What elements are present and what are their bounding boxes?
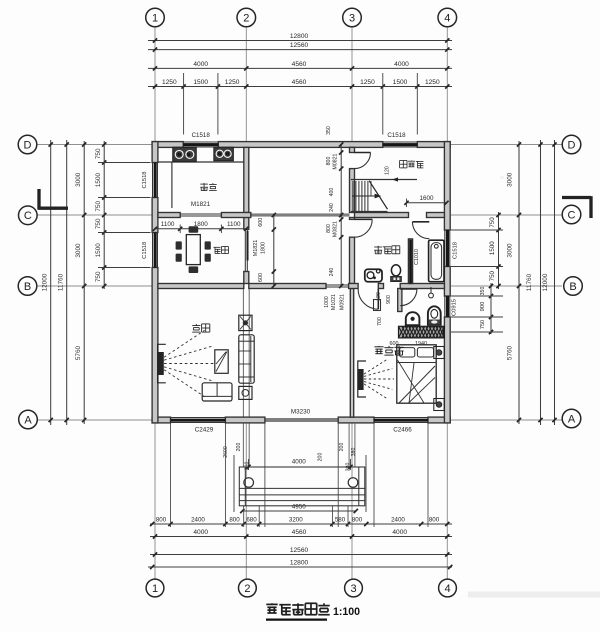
svg-text:600: 600 [390, 341, 399, 347]
svg-text:120: 120 [385, 166, 391, 175]
svg-text:4000: 4000 [193, 529, 208, 536]
svg-text:900: 900 [386, 295, 392, 304]
svg-text:C0915: C0915 [452, 299, 458, 316]
svg-text:3000: 3000 [507, 243, 514, 258]
svg-text:800: 800 [352, 516, 363, 523]
svg-text:800: 800 [326, 224, 332, 233]
svg-text:750: 750 [480, 320, 486, 329]
svg-text:C1518: C1518 [142, 242, 148, 259]
svg-text:5760: 5760 [75, 345, 82, 360]
svg-text:1940: 1940 [415, 341, 427, 347]
svg-text:4: 4 [444, 12, 450, 24]
svg-text:2: 2 [244, 583, 250, 595]
svg-text:M3230: M3230 [291, 409, 311, 416]
svg-text:12560: 12560 [290, 547, 309, 554]
svg-text:1500: 1500 [95, 172, 102, 187]
svg-text:1500: 1500 [393, 79, 408, 86]
svg-text:11760: 11760 [526, 273, 533, 291]
svg-text:3200: 3200 [289, 516, 303, 523]
svg-text:C1518: C1518 [453, 242, 459, 259]
svg-text:A: A [24, 414, 32, 426]
svg-text:400: 400 [329, 188, 335, 197]
svg-text:750: 750 [489, 270, 496, 281]
svg-text:4000: 4000 [193, 61, 208, 68]
svg-text:800: 800 [229, 516, 240, 523]
svg-text:680: 680 [246, 516, 257, 523]
svg-text:C: C [568, 209, 576, 221]
svg-text:M0821: M0821 [333, 221, 339, 237]
svg-text:1100: 1100 [227, 221, 241, 228]
svg-text:750: 750 [95, 148, 102, 159]
svg-text:600: 600 [258, 218, 264, 227]
svg-text:580: 580 [335, 516, 346, 523]
svg-text:800: 800 [429, 516, 440, 523]
svg-text:200: 200 [318, 453, 324, 462]
svg-text:1600: 1600 [419, 195, 434, 202]
svg-text:750: 750 [95, 218, 102, 229]
svg-text:4000: 4000 [394, 61, 409, 68]
svg-text:3000: 3000 [507, 172, 514, 187]
svg-text:C2429: C2429 [195, 427, 214, 434]
svg-text:2400: 2400 [391, 516, 405, 523]
svg-text:M0921: M0921 [340, 294, 346, 310]
svg-text:1250: 1250 [162, 79, 177, 86]
svg-text:C1518: C1518 [387, 132, 406, 139]
svg-text:4: 4 [444, 583, 450, 595]
svg-text:2: 2 [243, 12, 249, 24]
svg-text:350: 350 [326, 126, 332, 135]
svg-text:700: 700 [377, 317, 383, 326]
svg-text:240: 240 [329, 268, 335, 277]
svg-text:C1010: C1010 [414, 249, 420, 265]
svg-text:B: B [569, 281, 576, 293]
svg-text:200: 200 [339, 443, 345, 452]
svg-text:300: 300 [346, 463, 352, 472]
svg-text:D: D [24, 139, 32, 151]
svg-text:1250: 1250 [360, 79, 375, 86]
svg-text:C2466: C2466 [393, 427, 412, 434]
svg-text:1:100: 1:100 [333, 606, 360, 618]
svg-text:12000: 12000 [41, 273, 48, 291]
svg-text:3000: 3000 [75, 243, 82, 258]
svg-text:1250: 1250 [225, 79, 240, 86]
svg-text:1000: 1000 [324, 296, 330, 308]
svg-text:380: 380 [351, 448, 357, 457]
svg-text:B: B [24, 281, 31, 293]
svg-text:M0821: M0821 [333, 153, 339, 169]
svg-text:12560: 12560 [290, 42, 309, 49]
svg-text:750: 750 [489, 217, 496, 228]
svg-text:4560: 4560 [292, 529, 307, 536]
svg-text:C: C [24, 210, 32, 222]
svg-text:4950: 4950 [292, 503, 307, 510]
svg-text:240: 240 [329, 203, 335, 212]
svg-text:4560: 4560 [292, 79, 307, 86]
svg-text:12000: 12000 [542, 273, 549, 291]
svg-text:2600: 2600 [223, 446, 229, 458]
svg-text:300: 300 [245, 462, 251, 471]
svg-text:600: 600 [258, 273, 264, 282]
svg-text:5760: 5760 [507, 345, 514, 360]
svg-text:750: 750 [95, 271, 102, 282]
svg-text:1250: 1250 [425, 79, 440, 86]
svg-text:1: 1 [152, 583, 158, 595]
svg-text:C1518: C1518 [142, 171, 148, 188]
svg-text:1500: 1500 [193, 79, 208, 86]
svg-text:1: 1 [152, 12, 158, 24]
svg-text:M1821: M1821 [253, 240, 259, 256]
svg-text:1500: 1500 [489, 241, 496, 255]
svg-text:1500: 1500 [95, 243, 102, 258]
svg-text:M1021: M1021 [331, 294, 337, 310]
svg-text:12800: 12800 [290, 559, 309, 566]
svg-text:200: 200 [236, 443, 242, 452]
svg-text:D: D [568, 139, 576, 151]
svg-text:1800: 1800 [261, 242, 267, 254]
svg-text:A: A [568, 413, 576, 425]
svg-text:3: 3 [350, 583, 356, 595]
svg-text:12800: 12800 [290, 33, 309, 40]
svg-text:900: 900 [480, 302, 486, 312]
svg-text:800: 800 [326, 157, 332, 166]
svg-text:750: 750 [95, 201, 102, 212]
svg-text:11760: 11760 [57, 273, 64, 291]
svg-text:4560: 4560 [292, 61, 307, 68]
svg-text:350: 350 [480, 287, 486, 296]
svg-text:M1821: M1821 [191, 201, 211, 208]
svg-text:4000: 4000 [292, 458, 307, 465]
svg-text:3000: 3000 [75, 172, 82, 187]
svg-text:2400: 2400 [191, 516, 205, 523]
svg-text:C1518: C1518 [192, 132, 211, 139]
svg-text:3: 3 [349, 12, 355, 24]
svg-text:1100: 1100 [161, 221, 175, 228]
svg-text:4000: 4000 [392, 529, 407, 536]
svg-text:800: 800 [156, 516, 167, 523]
